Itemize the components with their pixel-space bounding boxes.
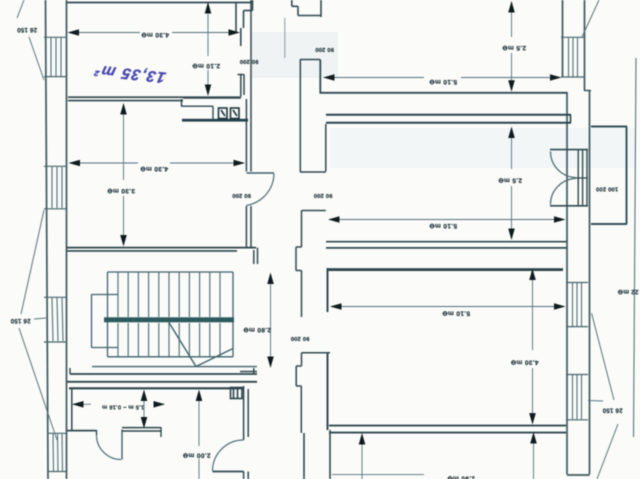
wall band below staircase top line: [70, 373, 257, 375]
staircase handrail bar: [104, 317, 234, 322]
svg-text:2.00 m⊖: 2.00 m⊖: [182, 452, 210, 459]
svg-text:4.30 m⊖: 4.30 m⊖: [141, 31, 169, 38]
stair east wall lower segment: [240, 368, 257, 374]
window W-L1 ticks: [44, 37, 67, 76]
dim 4.30 room2 line: [70, 162, 245, 164]
window W-L3 glazing: [52, 298, 63, 341]
dim 2.80 stairs arrow down: [267, 357, 274, 369]
dim 5.10 R3 line: [331, 306, 564, 308]
dim 2.80 stairs line: [270, 274, 272, 365]
wall W1 band between room1 and room2: [68, 96, 240, 98]
dim 4.30 room1 arrow left: [68, 29, 80, 36]
dim 1.5x0.16 line: [73, 403, 164, 405]
window W-L4 glazing: [53, 434, 63, 471]
window W-L2 ticks: [44, 166, 67, 209]
top wall of room 1: [66, 2, 253, 4]
dim 2.5 R2 arrow down: [508, 229, 515, 241]
bay window bottom: [591, 223, 627, 225]
shaft east wall lower: [329, 430, 331, 479]
WC partition jog: [160, 427, 162, 437]
dim 3.30 room2 arrow down: [120, 235, 127, 247]
dim R4 left arrow up: [359, 433, 366, 445]
wall band R2/R3 lower line: [326, 247, 567, 249]
window W-L2 glazing: [52, 167, 62, 208]
fixture RR right: [231, 108, 240, 119]
right exterior wall inner line: [566, 92, 568, 475]
shaft west wall lower: [303, 433, 305, 479]
right exterior wall top inner line: [562, 0, 564, 77]
svg-text:100 200: 100 200: [596, 186, 618, 192]
svg-text:90 200: 90 200: [232, 192, 251, 198]
left exterior wall outer line: [46, 0, 49, 479]
dim 4.30 room2 arrow left: [69, 160, 81, 167]
right exterior wall top outer line: [584, 0, 586, 91]
window W-R2 glazing: [573, 283, 582, 326]
chimney flue box at hall: [231, 388, 243, 399]
wall column below door D2 face a: [245, 206, 247, 248]
hall-to-south door arc: [213, 440, 244, 471]
svg-text:22 m⊖: 22 m⊖: [618, 288, 639, 295]
wall R3 south band line2: [329, 432, 566, 434]
dim 2.5 R2 line: [511, 128, 513, 238]
room1 east wall upper-left face: [235, 2, 237, 33]
dim 5.10 R3 arrow right: [554, 303, 566, 310]
window W-R1 glazing: [569, 38, 578, 77]
french door mid rail: [574, 177, 588, 179]
door D1 jamb lower pier: [238, 75, 245, 98]
corridor top wall: [300, 59, 320, 61]
dim 3.30 room2 arrow up: [120, 103, 127, 115]
door D2 leaf: [247, 172, 275, 174]
stair east wall upper segment: [254, 248, 258, 264]
room R1 west wall: [319, 60, 321, 94]
dim 5.10 R2 arrow right: [554, 216, 566, 223]
WC door leaf: [121, 430, 123, 460]
dim 5.10 R1 arrow right: [550, 74, 562, 81]
dim 0.91 vertical line: [143, 391, 145, 426]
corridor east wall (room R2 west): [325, 124, 327, 172]
bottom wall piece: [213, 471, 244, 473]
room R4 west wall: [327, 353, 329, 430]
left exterior wall inner line: [66, 0, 68, 479]
wall column below door D2 face b: [250, 206, 252, 248]
lower hall south wall: [69, 387, 244, 389]
wall W1 niche jog vertical: [181, 99, 183, 107]
svg-text:4.30 m⊖: 4.30 m⊖: [140, 165, 168, 172]
dim 2.10 room1 arrow down: [205, 85, 212, 97]
window W-L3 ticks: [44, 297, 67, 342]
svg-text:90 200: 90 200: [291, 335, 310, 341]
leader right wall to text: [592, 313, 615, 400]
wall column east of room2 face b: [250, 0, 252, 172]
french door top rail: [550, 149, 588, 151]
leader line text to window W-L4 lower: [19, 328, 57, 440]
staircase enclosure bottom line: [108, 356, 234, 358]
wall band below staircase bottom line: [66, 381, 257, 383]
room R3/R4 west wall mid: [327, 268, 329, 312]
svg-text:2.80 m⊖: 2.80 m⊖: [243, 326, 271, 333]
staircase direction line: [168, 321, 196, 367]
door D2 swing arc: [247, 174, 275, 206]
dim 2.00 line: [198, 391, 200, 479]
window W-R3 ticks: [566, 375, 588, 420]
dim 3.30 room2 line: [123, 104, 125, 245]
staircase right boundary: [232, 272, 234, 357]
WC room west wall: [71, 388, 73, 431]
leader top-right to window: [582, 0, 599, 37]
WC room north wall left piece: [66, 430, 97, 432]
svg-text:5.10 m⊖: 5.10 m⊖: [429, 78, 457, 85]
dim 5.10 R1 line: [324, 77, 560, 79]
leader line text to window W-L4: [34, 318, 46, 319]
leader line top-left from edge: [17, 0, 24, 18]
wall W2 band between room2 and stair hall: [66, 247, 256, 249]
hall-to-south door wall upper: [244, 386, 249, 440]
dim 4.30 room1 line: [69, 32, 240, 34]
stair hall bottom line: [92, 366, 257, 368]
dim 5.10 R1 arrow left: [323, 74, 335, 81]
WC room north wall right piece band: [122, 427, 161, 429]
dim R4 bottom line: [332, 474, 424, 476]
paper frame line right: [634, 58, 637, 437]
dim 2.5 R1 arrow up: [508, 1, 515, 13]
dim R4 right arrow up: [530, 432, 537, 444]
wall R3 north: [327, 268, 563, 271]
right exterior wall outer line: [589, 91, 591, 475]
dim 5.10 R2 line: [329, 219, 564, 221]
leader line window W-L2 to text: [21, 210, 44, 314]
dim 4.30 R3 arrow down: [529, 413, 536, 425]
dim R4 right line: [533, 434, 535, 479]
right wall bottom cap: [567, 474, 590, 476]
wall W1 niche bottom thick: [182, 119, 248, 122]
dim 2.00 arrow up: [196, 390, 203, 402]
svg-text:26 150: 26 150: [17, 26, 37, 33]
dim 2.80 stairs arrow up: [267, 273, 274, 285]
svg-text:3.30 m⊖: 3.30 m⊖: [107, 187, 135, 194]
wall W1 niche jog vertical 2: [212, 106, 214, 119]
wall column east of room2 face a: [245, 99, 247, 172]
dim 4.30 room2 arrow right: [234, 160, 246, 167]
staircase enclosure top line: [108, 271, 234, 273]
dim 2.5 R1 line: [511, 2, 513, 90]
dim 2.10 room1 line: [207, 3, 209, 95]
staircase treads lower flight: [118, 323, 220, 357]
svg-text:5.10 m⊖: 5.10 m⊖: [429, 222, 457, 229]
window W-R2 ticks: [566, 283, 588, 327]
thick middle wall band right cap: [570, 115, 572, 123]
dim 4.30 R3 arrow up: [529, 269, 536, 281]
svg-text:2.10 m⊖: 2.10 m⊖: [192, 62, 220, 69]
svg-text:90 200: 90 200: [315, 46, 334, 52]
passage west faint wall: [284, 18, 286, 58]
dim 5.10 R3 arrow left: [330, 303, 342, 310]
svg-text:90 200: 90 200: [314, 192, 333, 198]
svg-text:5.10 m⊖: 5.10 m⊖: [442, 310, 470, 317]
dim 5.10 R2 arrow left: [328, 216, 340, 223]
staircase direction line break: [196, 349, 233, 367]
dim 1.5x0.16 arrow right: [154, 401, 166, 408]
dim 0.91 arrow down: [141, 417, 148, 429]
room1 east wall top jog: [244, 0, 253, 28]
dim 0.91 arrow up: [141, 390, 148, 402]
dim 1.5x0.16 arrow left: [72, 401, 84, 408]
french door leaf arc upper: [551, 152, 576, 178]
french door leaf arc lower: [551, 179, 576, 205]
svg-text:1.90 m⊖: 1.90 m⊖: [447, 475, 475, 479]
window W-R1 ticks: [561, 37, 585, 77]
svg-text:2.5 m⊖: 2.5 m⊖: [502, 44, 526, 51]
fixture RR left: [219, 108, 228, 119]
door D1 jamb upper: [240, 28, 242, 46]
leader text down to bottom edge: [597, 424, 618, 479]
svg-text:90 200: 90 200: [240, 58, 259, 64]
svg-text:2.5 m⊖: 2.5 m⊖: [498, 177, 522, 184]
wall A below room R1: [320, 92, 568, 94]
window W-L1 glazing: [51, 38, 61, 76]
WC door swing arc: [97, 435, 122, 460]
wall R3 south band line1: [329, 425, 566, 427]
window W-L4 ticks: [47, 433, 66, 471]
thick middle wall band top line: [326, 114, 571, 116]
staircase U-turn landing: [92, 295, 119, 348]
svg-text:4.30 m⊖: 4.30 m⊖: [510, 359, 538, 366]
staircase treads upper flight: [118, 273, 220, 318]
corridor west wall upper: [299, 60, 301, 173]
right wall jog at corridor line: [584, 90, 591, 92]
bay window top: [591, 126, 627, 128]
bottom wall stub down: [244, 472, 249, 479]
leader line text to window W-L1: [29, 37, 44, 80]
wall band left bracket: [69, 368, 71, 374]
wall W1 thin continuation: [183, 97, 241, 99]
leader tick right text: [588, 400, 603, 403]
dim 2.5 R1 arrow down: [508, 80, 515, 92]
dim R4 left line: [361, 435, 363, 479]
bay window right: [626, 127, 628, 225]
window W-R3 glazing: [573, 375, 582, 419]
dim 2.5 R2 arrow up: [508, 127, 515, 139]
dim 4.30 room1 arrow right: [229, 29, 241, 36]
thick middle wall band bottom line: [326, 122, 571, 124]
wall band R2/R3 upper line: [326, 241, 567, 243]
hall lower jamb wall: [296, 211, 326, 434]
french door frame lines: [578, 150, 587, 206]
svg-text:26 150: 26 150: [602, 407, 622, 414]
french door bottom rail: [550, 205, 588, 207]
dim 4.30 R3 line: [532, 270, 534, 423]
svg-text:26 150: 26 150: [10, 317, 30, 324]
chimney block top-center outline: [292, 0, 321, 17]
corridor bottom wall (hall): [300, 171, 326, 173]
wall W1 niche shelf: [182, 105, 214, 107]
WC door jamb: [96, 430, 98, 435]
scan tint patches: [252, 32, 636, 168]
closet top wall: [302, 352, 331, 354]
staircase left boundary: [107, 272, 109, 357]
svg-text:1.5 m − 0.16 m: 1.5 m − 0.16 m: [102, 404, 144, 410]
dim 2.10 room1 arrow up: [205, 2, 212, 14]
